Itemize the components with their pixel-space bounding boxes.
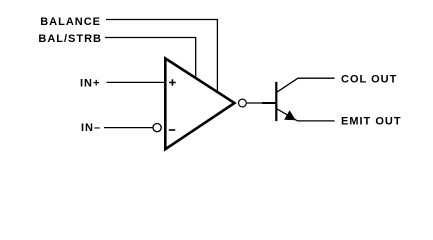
transistor Q1 base bar <box>275 82 277 121</box>
svg-text:IN–: IN– <box>81 122 101 134</box>
wire IN+ <box>107 81 166 83</box>
plus sign (noninverting input) <box>169 79 176 86</box>
emitter arrowhead <box>284 110 296 120</box>
minus sign (inverting input) <box>169 129 176 131</box>
wire BAL/STRB to op-amp top <box>105 38 196 78</box>
wire output bubble to transistor base <box>247 102 264 104</box>
base lead (thick) <box>262 102 276 104</box>
op-amp U1 triangle <box>165 58 234 149</box>
svg-text:COL OUT: COL OUT <box>341 74 397 86</box>
wire BALANCE to op-amp top <box>106 20 217 92</box>
svg-text:BAL/STRB: BAL/STRB <box>38 33 102 45</box>
svg-text:EMIT OUT: EMIT OUT <box>341 116 402 128</box>
svg-text:IN+: IN+ <box>80 78 100 90</box>
transistor emitter lead and wire to EMIT OUT <box>277 109 335 121</box>
svg-text:BALANCE: BALANCE <box>40 16 101 28</box>
wire IN- <box>104 127 153 129</box>
output inversion bubble <box>239 99 247 107</box>
transistor collector lead and wire to COL OUT <box>277 78 335 92</box>
inversion bubble on IN- input <box>153 124 161 132</box>
